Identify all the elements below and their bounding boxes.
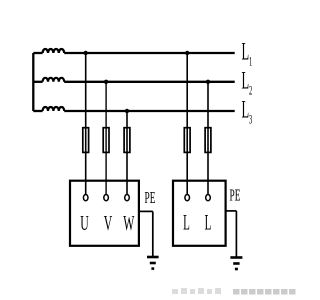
svg-text:L: L bbox=[242, 96, 250, 124]
wire: drop from L2 to terminal V bbox=[105, 82, 107, 195]
ground (left PE) bbox=[147, 257, 159, 269]
junction dot on L1 at x=187.2 bbox=[185, 51, 189, 55]
label U bbox=[80, 211, 88, 234]
svg-text:L: L bbox=[242, 67, 250, 95]
inductor on line L2 bbox=[43, 78, 65, 82]
wire: PE of left box to ground bbox=[139, 211, 153, 256]
svg-text:L: L bbox=[183, 211, 190, 235]
svg-text:2: 2 bbox=[249, 84, 252, 98]
wire: drop from L3 to terminal W bbox=[126, 111, 128, 195]
label PE (left) bbox=[145, 188, 156, 207]
wire: phase line L1 bbox=[33, 52, 234, 54]
svg-text:L: L bbox=[205, 211, 212, 235]
fuse 3 bbox=[124, 128, 130, 153]
wire: drop from L1 to terminal U bbox=[85, 53, 87, 195]
junction dot on L2 at x=208.0 bbox=[206, 80, 210, 84]
svg-text:L: L bbox=[242, 38, 250, 66]
label L (second) bbox=[205, 211, 212, 235]
label L2 bbox=[242, 67, 253, 98]
fuse 5 bbox=[205, 128, 211, 153]
wire: PE of right box to ground bbox=[226, 211, 237, 257]
terminal L (second) bbox=[206, 195, 211, 201]
svg-text:W: W bbox=[123, 211, 135, 234]
label L3 bbox=[242, 96, 253, 127]
fuse 2 bbox=[103, 128, 109, 153]
terminal L (first) bbox=[185, 195, 190, 201]
terminal W bbox=[125, 195, 130, 201]
wire: left bus connecting the three line filters bbox=[32, 53, 34, 111]
label L1 bbox=[242, 38, 253, 69]
inductor on line L3 bbox=[43, 107, 65, 111]
device box: single-phase load with terminals L L bbox=[173, 181, 226, 246]
svg-text:1: 1 bbox=[249, 55, 252, 69]
label L (first) bbox=[183, 211, 190, 235]
junction dot on L1 at x=85.7 bbox=[84, 51, 88, 55]
label W bbox=[123, 211, 135, 234]
svg-text:PE: PE bbox=[145, 188, 156, 207]
svg-text:V: V bbox=[104, 211, 113, 234]
wire: drop from L2 to second terminal L of single-phase load bbox=[207, 82, 209, 195]
junction dot on L3 at x=127 bbox=[125, 109, 129, 113]
terminal U bbox=[83, 195, 88, 201]
fuse 4 bbox=[184, 128, 190, 153]
svg-text:U: U bbox=[80, 211, 88, 234]
ground (right PE) bbox=[230, 258, 242, 270]
svg-text:PE: PE bbox=[230, 186, 241, 205]
fuse 1 bbox=[83, 128, 89, 153]
terminal V bbox=[104, 195, 109, 201]
inductor on line L1 bbox=[43, 49, 65, 53]
wire: phase line L3 bbox=[33, 110, 234, 112]
label PE (right) bbox=[230, 186, 241, 205]
svg-text:3: 3 bbox=[249, 113, 252, 127]
wire: phase line L2 bbox=[33, 81, 234, 83]
label V bbox=[104, 211, 113, 234]
device box: three-phase load with terminals U V W bbox=[70, 181, 139, 246]
junction dot on L2 at x=106.1 bbox=[104, 80, 108, 84]
watermark (faint gray text at bottom) bbox=[172, 288, 221, 294]
wire: drop from L1 to first terminal L of single-phase load bbox=[186, 53, 188, 195]
